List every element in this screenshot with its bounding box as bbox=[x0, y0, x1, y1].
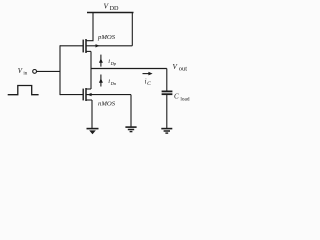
wire pMOS gate lead bbox=[60, 45, 83, 47]
wire nMOS body to ground bbox=[130, 95, 132, 127]
svg-text:Dp: Dp bbox=[110, 61, 117, 66]
label Vin bbox=[18, 67, 28, 76]
label iC bbox=[145, 79, 152, 88]
svg-text:pMOS: pMOS bbox=[97, 34, 116, 41]
wire gate bus bbox=[59, 45, 61, 95]
svg-text:out: out bbox=[179, 66, 187, 73]
ground (nMOS source) bbox=[87, 129, 99, 135]
current arrow iC bbox=[143, 72, 153, 76]
ground (capacitor) bbox=[161, 129, 172, 134]
wire Vout to capacitor bbox=[166, 69, 168, 91]
wire output node to Vout bbox=[91, 68, 167, 70]
svg-text:in: in bbox=[23, 72, 27, 77]
label iDp bbox=[108, 58, 117, 66]
wire nMOS source to ground bbox=[91, 100, 93, 128]
current arrow iDp bbox=[99, 55, 103, 67]
net VDD label bbox=[104, 2, 120, 12]
current arrow iDn bbox=[99, 75, 103, 87]
transistor pMOS bbox=[83, 39, 132, 53]
wire Vin to gate bus bbox=[36, 70, 60, 72]
input pulse waveform bbox=[8, 86, 39, 95]
ground (nMOS body) bbox=[125, 127, 136, 132]
svg-text:C: C bbox=[174, 93, 179, 101]
wire VDD rail right end to pMOS body bbox=[131, 13, 133, 46]
label Cload bbox=[174, 93, 190, 103]
svg-text:DD: DD bbox=[110, 5, 119, 12]
wire capacitor to ground bbox=[166, 95, 168, 128]
svg-text:load: load bbox=[180, 96, 189, 102]
label Vout bbox=[173, 63, 188, 73]
wire nMOS gate lead bbox=[60, 94, 83, 96]
output node vertical wire bbox=[90, 51, 92, 89]
label iDn bbox=[108, 78, 117, 86]
transistor nMOS bbox=[83, 88, 131, 101]
svg-text:V: V bbox=[18, 67, 23, 75]
svg-text:C: C bbox=[147, 81, 151, 87]
wire VDD rail to pMOS source bbox=[86, 13, 93, 41]
svg-text:Dn: Dn bbox=[110, 81, 117, 86]
capacitor Cload bbox=[162, 91, 173, 94]
input terminal bbox=[33, 70, 37, 74]
VDD power rail bbox=[87, 12, 134, 14]
svg-text:nMOS: nMOS bbox=[98, 101, 116, 108]
